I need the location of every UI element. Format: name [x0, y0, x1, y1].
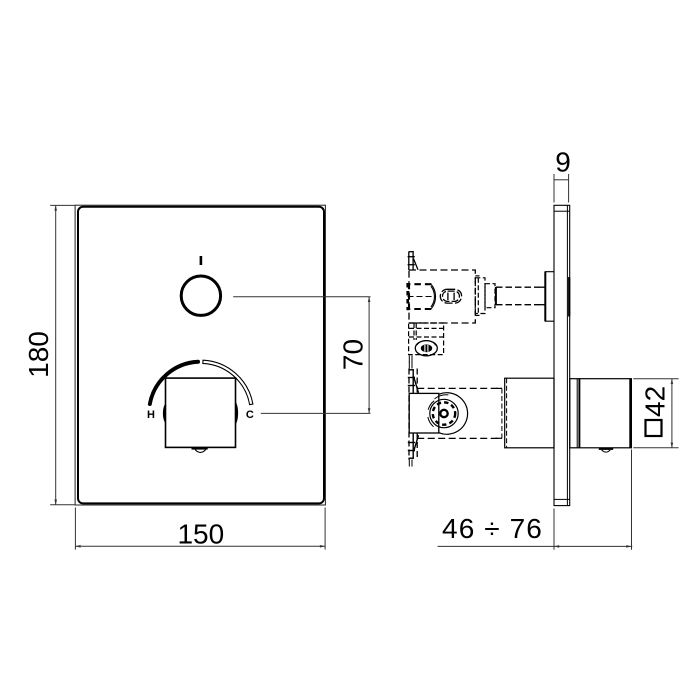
- side wall plate: [554, 205, 570, 505]
- valve screw slot hidden: [440, 289, 461, 303]
- dimension 150: [75, 508, 325, 550]
- svg-text:180: 180: [23, 331, 54, 378]
- thermostat cartridge circles: [428, 393, 468, 435]
- dimension 180: [23, 205, 75, 504]
- bracket tab top: [408, 362, 419, 394]
- grip notch right: [235, 401, 238, 425]
- svg-text:70: 70: [337, 339, 368, 370]
- valve mounting tab top hidden: [408, 252, 418, 271]
- svg-text:H: H: [147, 409, 155, 421]
- thermostat bracket hidden: [409, 369, 417, 460]
- handle side: [570, 379, 632, 448]
- diverter valve body hidden: [409, 270, 475, 323]
- valve body step 1 hidden: [475, 276, 485, 316]
- button circle: [181, 276, 220, 315]
- svg-text:42: 42: [640, 386, 671, 417]
- thermostat body outline hidden: [417, 388, 502, 438]
- button flange disc side: [545, 272, 554, 322]
- svg-text:150: 150: [177, 519, 224, 550]
- bracket tab bottom: [408, 433, 419, 467]
- outlet port hidden: [409, 323, 444, 355]
- button shaft hidden: [496, 287, 545, 305]
- hot side arc: [150, 362, 198, 404]
- front plate: [75, 205, 325, 505]
- button index mark I: [200, 256, 203, 265]
- dimension 46-76: [438, 450, 633, 550]
- dimension square42: [633, 379, 678, 448]
- handle sleeve side: [496, 378, 555, 448]
- svg-text:9: 9: [555, 146, 571, 177]
- grip notch left: [163, 403, 166, 424]
- valve cartridge hidden: [408, 283, 432, 310]
- outlet port ellipse: [415, 341, 437, 356]
- dimension 9: [554, 146, 571, 202]
- valve bracket lower ticks hidden: [409, 356, 412, 363]
- thermostat cartridge box: [409, 393, 439, 433]
- dimension 70: [233, 297, 370, 414]
- handle square: [166, 378, 236, 447]
- valve body step 2 hidden: [485, 284, 495, 308]
- svg-text:C: C: [246, 409, 254, 421]
- handle bottom tab: [192, 447, 208, 452]
- handle grip notch side: [599, 448, 613, 452]
- svg-text:46 ÷ 76: 46 ÷ 76: [442, 513, 543, 544]
- cold side arc: [203, 360, 253, 404]
